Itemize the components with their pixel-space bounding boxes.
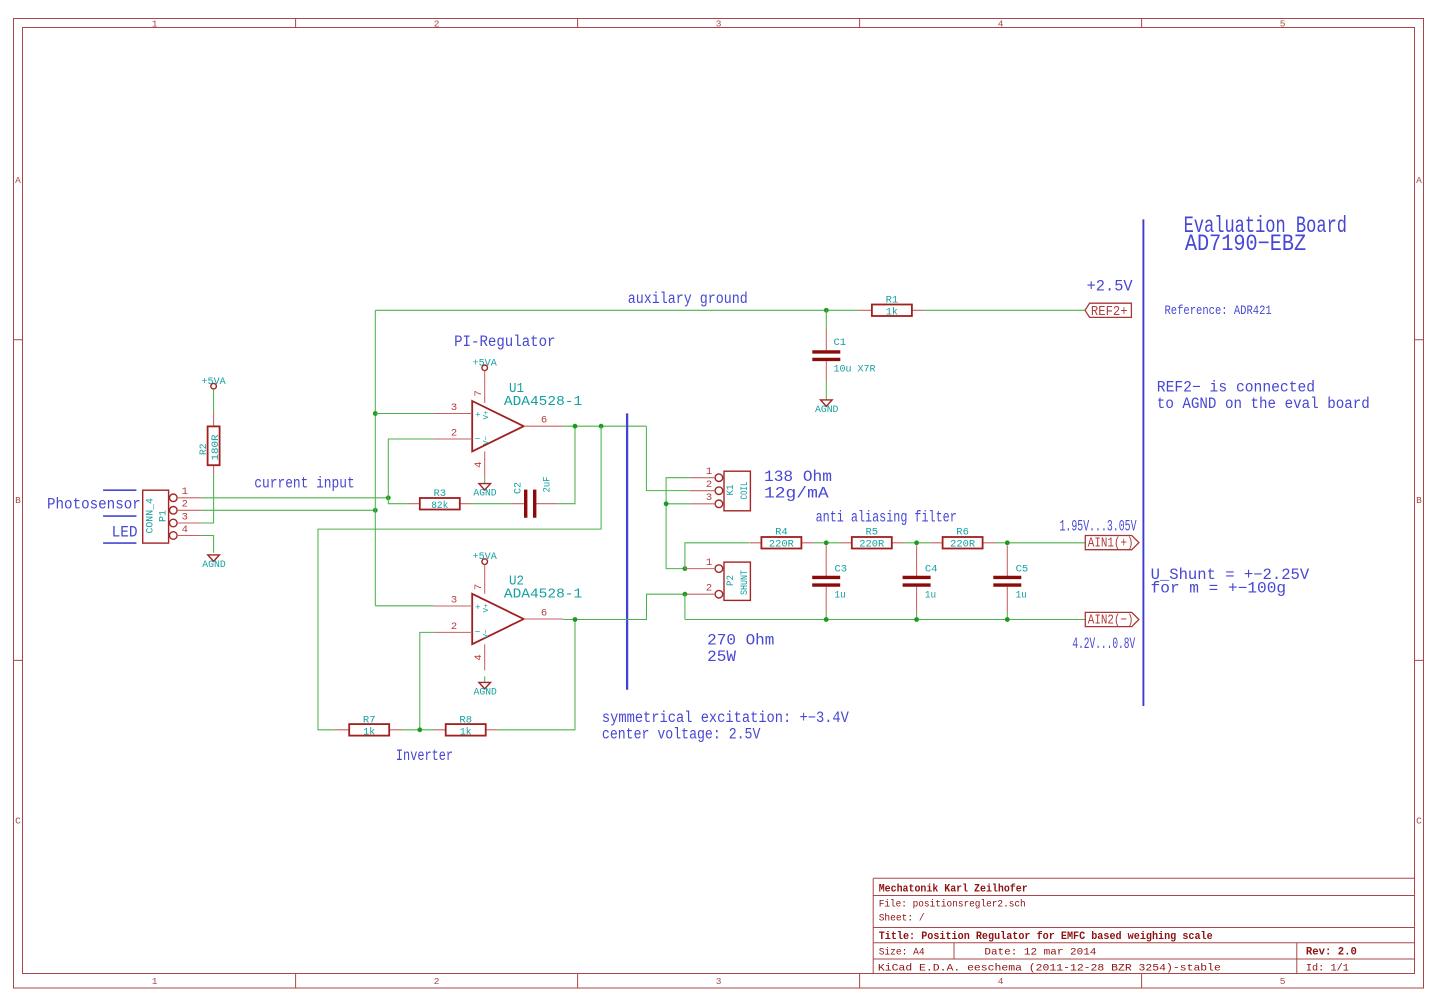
svg-text:2: 2 [706, 583, 712, 595]
frame ticks right [1415, 340, 1424, 661]
frame row letters left [15, 175, 21, 827]
junction P1 pin2 wire [373, 508, 378, 513]
svg-text:ADA4528-1: ADA4528-1 [504, 394, 582, 410]
resistor R7 [334, 714, 404, 738]
svg-text:4: 4 [182, 524, 188, 536]
svg-text:4: 4 [473, 654, 485, 660]
svg-text:1u: 1u [835, 589, 846, 601]
svg-text:Rev: 2.0: Rev: 2.0 [1306, 947, 1357, 959]
svg-text:AIN2(−): AIN2(−) [1088, 612, 1134, 628]
svg-text:10u X7R: 10u X7R [834, 364, 877, 376]
svg-text:A: A [1416, 175, 1422, 186]
svg-text:AGND: AGND [473, 487, 496, 499]
svg-text:7: 7 [473, 390, 485, 396]
title block border [873, 878, 1414, 973]
svg-text:Id: 1/1: Id: 1/1 [1306, 963, 1349, 975]
resistor R4 [749, 527, 814, 551]
svg-text:25W: 25W [707, 648, 737, 666]
svg-text:R8: R8 [459, 714, 472, 726]
svg-text:6: 6 [541, 607, 547, 619]
svg-text:current input: current input [254, 475, 354, 493]
junction C1 tap [824, 308, 829, 313]
P1 pin numbers 1 2 3 4 [182, 486, 188, 536]
bus blue vertical line [626, 413, 628, 689]
junction R7 R8 feedback node [417, 727, 422, 732]
svg-text:6: 6 [541, 415, 547, 427]
svg-text:B: B [15, 495, 21, 506]
capacitor C1 [812, 310, 876, 381]
wire P1 pin1 to feedback node [202, 497, 389, 499]
svg-text:ADA4528-1: ADA4528-1 [504, 586, 582, 602]
junction C5 bottom [1005, 617, 1010, 622]
junction K1 pin3 [664, 501, 669, 506]
svg-text:C5: C5 [1016, 564, 1029, 576]
wire aux ground main vertical [374, 310, 376, 606]
svg-text:R2: R2 [198, 444, 210, 456]
wire +5VA to R2 [213, 389, 215, 413]
svg-text:2: 2 [706, 479, 712, 491]
svg-text:1k: 1k [886, 307, 898, 319]
junction U1 output C2 branch [573, 424, 578, 429]
svg-text:12g/mA: 12g/mA [764, 485, 829, 503]
wire R1 to REF2+ [924, 309, 1085, 311]
ground AGND at C1 [815, 381, 838, 416]
svg-text:V+: V+ [483, 410, 491, 420]
frame ticks top [296, 19, 1142, 28]
capacitor C4 [903, 546, 938, 620]
svg-text:220R: 220R [950, 539, 976, 551]
ground AGND at U1 [473, 478, 496, 500]
svg-text:C3: C3 [835, 564, 848, 576]
global label AIN1(+) [1085, 535, 1139, 551]
power symbol +5VA at U1 [473, 357, 498, 370]
svg-text:Size: A4: Size: A4 [879, 947, 925, 959]
connector P1 CONN_4 [143, 490, 202, 543]
svg-text:1k: 1k [460, 726, 472, 738]
wire P2 pin1 to filter input [685, 543, 749, 569]
svg-text:R5: R5 [865, 527, 878, 539]
junction P2 pin1 [683, 566, 688, 571]
svg-text:V−: V− [483, 629, 491, 639]
junction U1 output inverter branch [599, 424, 604, 429]
global label REF2+ [1085, 303, 1131, 320]
svg-text:5: 5 [1280, 976, 1286, 987]
svg-text:180R: 180R [210, 434, 222, 461]
frame ticks bottom [296, 974, 1142, 989]
wire R8 up to U2 output [498, 620, 575, 730]
capacitor C5 [993, 546, 1028, 620]
svg-text:Sheet: /: Sheet: / [879, 912, 925, 924]
resistor R3 [408, 488, 472, 512]
svg-text:R1: R1 [886, 295, 899, 307]
svg-text:3: 3 [182, 511, 188, 523]
svg-text:−: − [475, 627, 481, 638]
svg-text:2: 2 [434, 976, 440, 987]
junction C4 top [914, 540, 919, 545]
svg-text:4: 4 [998, 19, 1004, 30]
op-amp U2 ADA4528-1 [433, 564, 582, 670]
power symbol +5VA at U2 [473, 551, 498, 564]
svg-text:REF2+: REF2+ [1091, 304, 1128, 320]
svg-text:7: 7 [473, 584, 485, 590]
svg-text:Mechatonik Karl Zeilhofer: Mechatonik Karl Zeilhofer [879, 884, 1028, 896]
graphic line between Photosensor and LED [103, 515, 136, 517]
svg-text:Reference: ADR421: Reference: ADR421 [1165, 303, 1272, 318]
wire P1 pin2 to aux ground vertical [202, 509, 376, 511]
svg-text:+5VA: +5VA [473, 357, 498, 369]
svg-text:+5VA: +5VA [202, 376, 227, 388]
svg-text:3: 3 [706, 492, 712, 504]
junction C5 top [1005, 540, 1010, 545]
svg-text:1.95V...3.05V: 1.95V...3.05V [1060, 518, 1137, 536]
wire K1 pin3 stub [666, 503, 690, 505]
svg-text:to AGND on the eval board: to AGND on the eval board [1157, 395, 1370, 413]
junction P1 pin1 wire [386, 495, 391, 500]
connector P2 SHUNT [685, 562, 751, 600]
wire U1 output to K1 pin2 [646, 426, 689, 490]
svg-text:1u: 1u [925, 589, 936, 601]
wire inverter branch down [318, 426, 601, 730]
svg-text:220R: 220R [769, 539, 795, 551]
connector K1 COIL [690, 471, 751, 511]
wire R6 to AIN1 [996, 542, 1086, 544]
frame column numbers top [152, 19, 1286, 30]
frame row letters right [1416, 175, 1422, 827]
svg-text:B: B [1416, 495, 1422, 506]
ground AGND at P1 [202, 555, 225, 571]
wire R3 to C2 [472, 503, 512, 505]
svg-text:V+: V+ [483, 603, 491, 613]
wire aux ground horizontal [375, 309, 858, 311]
svg-text:PI-Regulator: PI-Regulator [454, 333, 555, 351]
svg-text:R6: R6 [956, 527, 969, 539]
svg-text:Photosensor: Photosensor [47, 496, 141, 514]
svg-text:4.2V...0.8V: 4.2V...0.8V [1072, 635, 1135, 653]
svg-text:for m = +−100g: for m = +−100g [1151, 579, 1287, 597]
wire U2 output [563, 594, 685, 619]
junction C4 bottom [914, 617, 919, 622]
svg-text:C: C [1416, 816, 1422, 827]
svg-text:3: 3 [451, 402, 457, 414]
svg-text:C4: C4 [925, 564, 938, 576]
svg-text:File: positionsregler2.sch: File: positionsregler2.sch [879, 899, 1026, 911]
svg-text:COIL: COIL [739, 482, 751, 500]
svg-text:1k: 1k [363, 726, 375, 738]
wire U1 pin3 from main vertical [375, 413, 433, 415]
wire U2 pin3 from main vertical [375, 605, 433, 607]
svg-text:1: 1 [152, 976, 158, 987]
graphic line below LED [103, 542, 136, 544]
wire R5 to R6 [905, 542, 931, 544]
svg-text:C2: C2 [513, 482, 525, 494]
svg-text:V−: V− [483, 435, 491, 445]
wire C2 up to U1 output [558, 426, 575, 504]
svg-text:R4: R4 [775, 527, 788, 539]
junction U1 pin3 tap [373, 411, 378, 416]
svg-text:AGND: AGND [202, 559, 225, 571]
resistor R1 [858, 295, 924, 319]
svg-text:AGND: AGND [474, 687, 497, 699]
svg-text:Inverter: Inverter [396, 747, 453, 765]
wire P2 pin2 down to bottom row [684, 594, 686, 619]
svg-text:2: 2 [451, 621, 457, 633]
svg-text:270 Ohm: 270 Ohm [707, 632, 774, 650]
svg-text:2: 2 [434, 19, 440, 30]
junction U2 output [573, 617, 578, 622]
svg-text:A: A [15, 175, 21, 186]
svg-text:1: 1 [706, 466, 712, 478]
resistor R5 [840, 527, 905, 551]
svg-text:AD7190−EBZ: AD7190−EBZ [1185, 231, 1306, 257]
svg-text:R3: R3 [433, 488, 446, 500]
svg-text:REF2− is connected: REF2− is connected [1157, 379, 1315, 397]
frame column numbers bottom [152, 976, 1286, 987]
global label AIN2(-) [1085, 612, 1139, 628]
svg-text:3: 3 [716, 976, 722, 987]
svg-text:AGND: AGND [815, 404, 838, 416]
graphic line above Photosensor [103, 489, 136, 491]
svg-text:−: − [475, 433, 481, 444]
wire U1 pin2 feedback loop [388, 439, 433, 504]
svg-text:2uF: 2uF [542, 477, 554, 493]
svg-text:R7: R7 [363, 714, 376, 726]
resistor R6 [931, 527, 996, 551]
wire K1 pin1 pin3 to P2 pin1 [666, 478, 690, 569]
capacitor C2 [511, 477, 557, 518]
svg-text:82k: 82k [431, 500, 448, 512]
svg-text:C1: C1 [834, 337, 847, 349]
svg-text:LED: LED [112, 523, 138, 541]
svg-text:4: 4 [998, 976, 1004, 987]
svg-text:Date: 12 mar 2014: Date: 12 mar 2014 [984, 947, 1096, 959]
svg-text:1u: 1u [1016, 589, 1027, 601]
svg-text:+5VA: +5VA [473, 551, 498, 563]
junction P2 pin2 [683, 592, 688, 597]
svg-text:center voltage: 2.5V: center voltage: 2.5V [602, 725, 761, 743]
wire U2 pin2 feedback from R7 R8 node [420, 632, 434, 729]
svg-text:C: C [15, 816, 21, 827]
K1 pin numbers [706, 466, 712, 504]
svg-text:symmetrical excitation: +−3.4V: symmetrical excitation: +−3.4V [602, 709, 850, 727]
wire U1 output [563, 425, 646, 427]
svg-text:K1: K1 [725, 485, 737, 496]
svg-text:3: 3 [451, 594, 457, 606]
svg-text:138 Ohm: 138 Ohm [764, 468, 832, 486]
svg-text:4: 4 [473, 462, 485, 468]
svg-text:SHUNT: SHUNT [739, 570, 751, 595]
svg-text:Title: Position Regulator for: Title: Position Regulator for EMFC based… [879, 931, 1213, 943]
svg-text:P1: P1 [158, 510, 170, 522]
svg-text:P2: P2 [725, 575, 737, 586]
ground AGND at U2 [474, 676, 497, 698]
wire bottom row to AIN2 [685, 619, 1085, 621]
svg-text:1: 1 [182, 486, 188, 498]
svg-text:KiCad E.D.A. eeschema (2011-1: KiCad E.D.A. eeschema (2011-12-28 BZR 32… [878, 963, 1221, 975]
wire R2 to P1 pin3 [202, 475, 214, 523]
op-amp U1 ADA4528-1 [433, 371, 582, 478]
svg-text:2: 2 [451, 427, 457, 439]
svg-text:2: 2 [182, 499, 188, 511]
P2 pin numbers [706, 557, 712, 595]
resistor R8 [434, 714, 498, 738]
svg-text:+2.5V: +2.5V [1087, 277, 1134, 295]
wire P1 pin4 to AGND [202, 536, 214, 553]
svg-text:5: 5 [1280, 19, 1286, 30]
svg-text:+: + [475, 409, 481, 420]
separator blue line [1142, 219, 1144, 706]
svg-text:anti aliasing filter: anti aliasing filter [816, 508, 957, 526]
svg-text:+: + [475, 602, 481, 613]
svg-text:3: 3 [716, 19, 722, 30]
svg-text:1: 1 [152, 19, 158, 30]
U1 pin numbers [451, 390, 547, 468]
frame ticks left [14, 340, 23, 661]
wire R7 to R8 [403, 729, 433, 731]
junction C3 bottom [824, 617, 829, 622]
svg-text:auxilary ground: auxilary ground [628, 290, 748, 308]
power symbol +5VA at R2 [202, 376, 227, 389]
capacitor C3 [812, 546, 847, 620]
svg-text:CONN_4: CONN_4 [145, 498, 157, 533]
junction C3 top [824, 540, 829, 545]
svg-text:AIN1(+): AIN1(+) [1088, 535, 1134, 551]
resistor R2 [198, 413, 222, 476]
svg-text:220R: 220R [859, 539, 885, 551]
svg-text:1: 1 [706, 557, 712, 569]
wire R4 to R5 [814, 542, 839, 544]
U2 pin numbers [451, 584, 547, 661]
